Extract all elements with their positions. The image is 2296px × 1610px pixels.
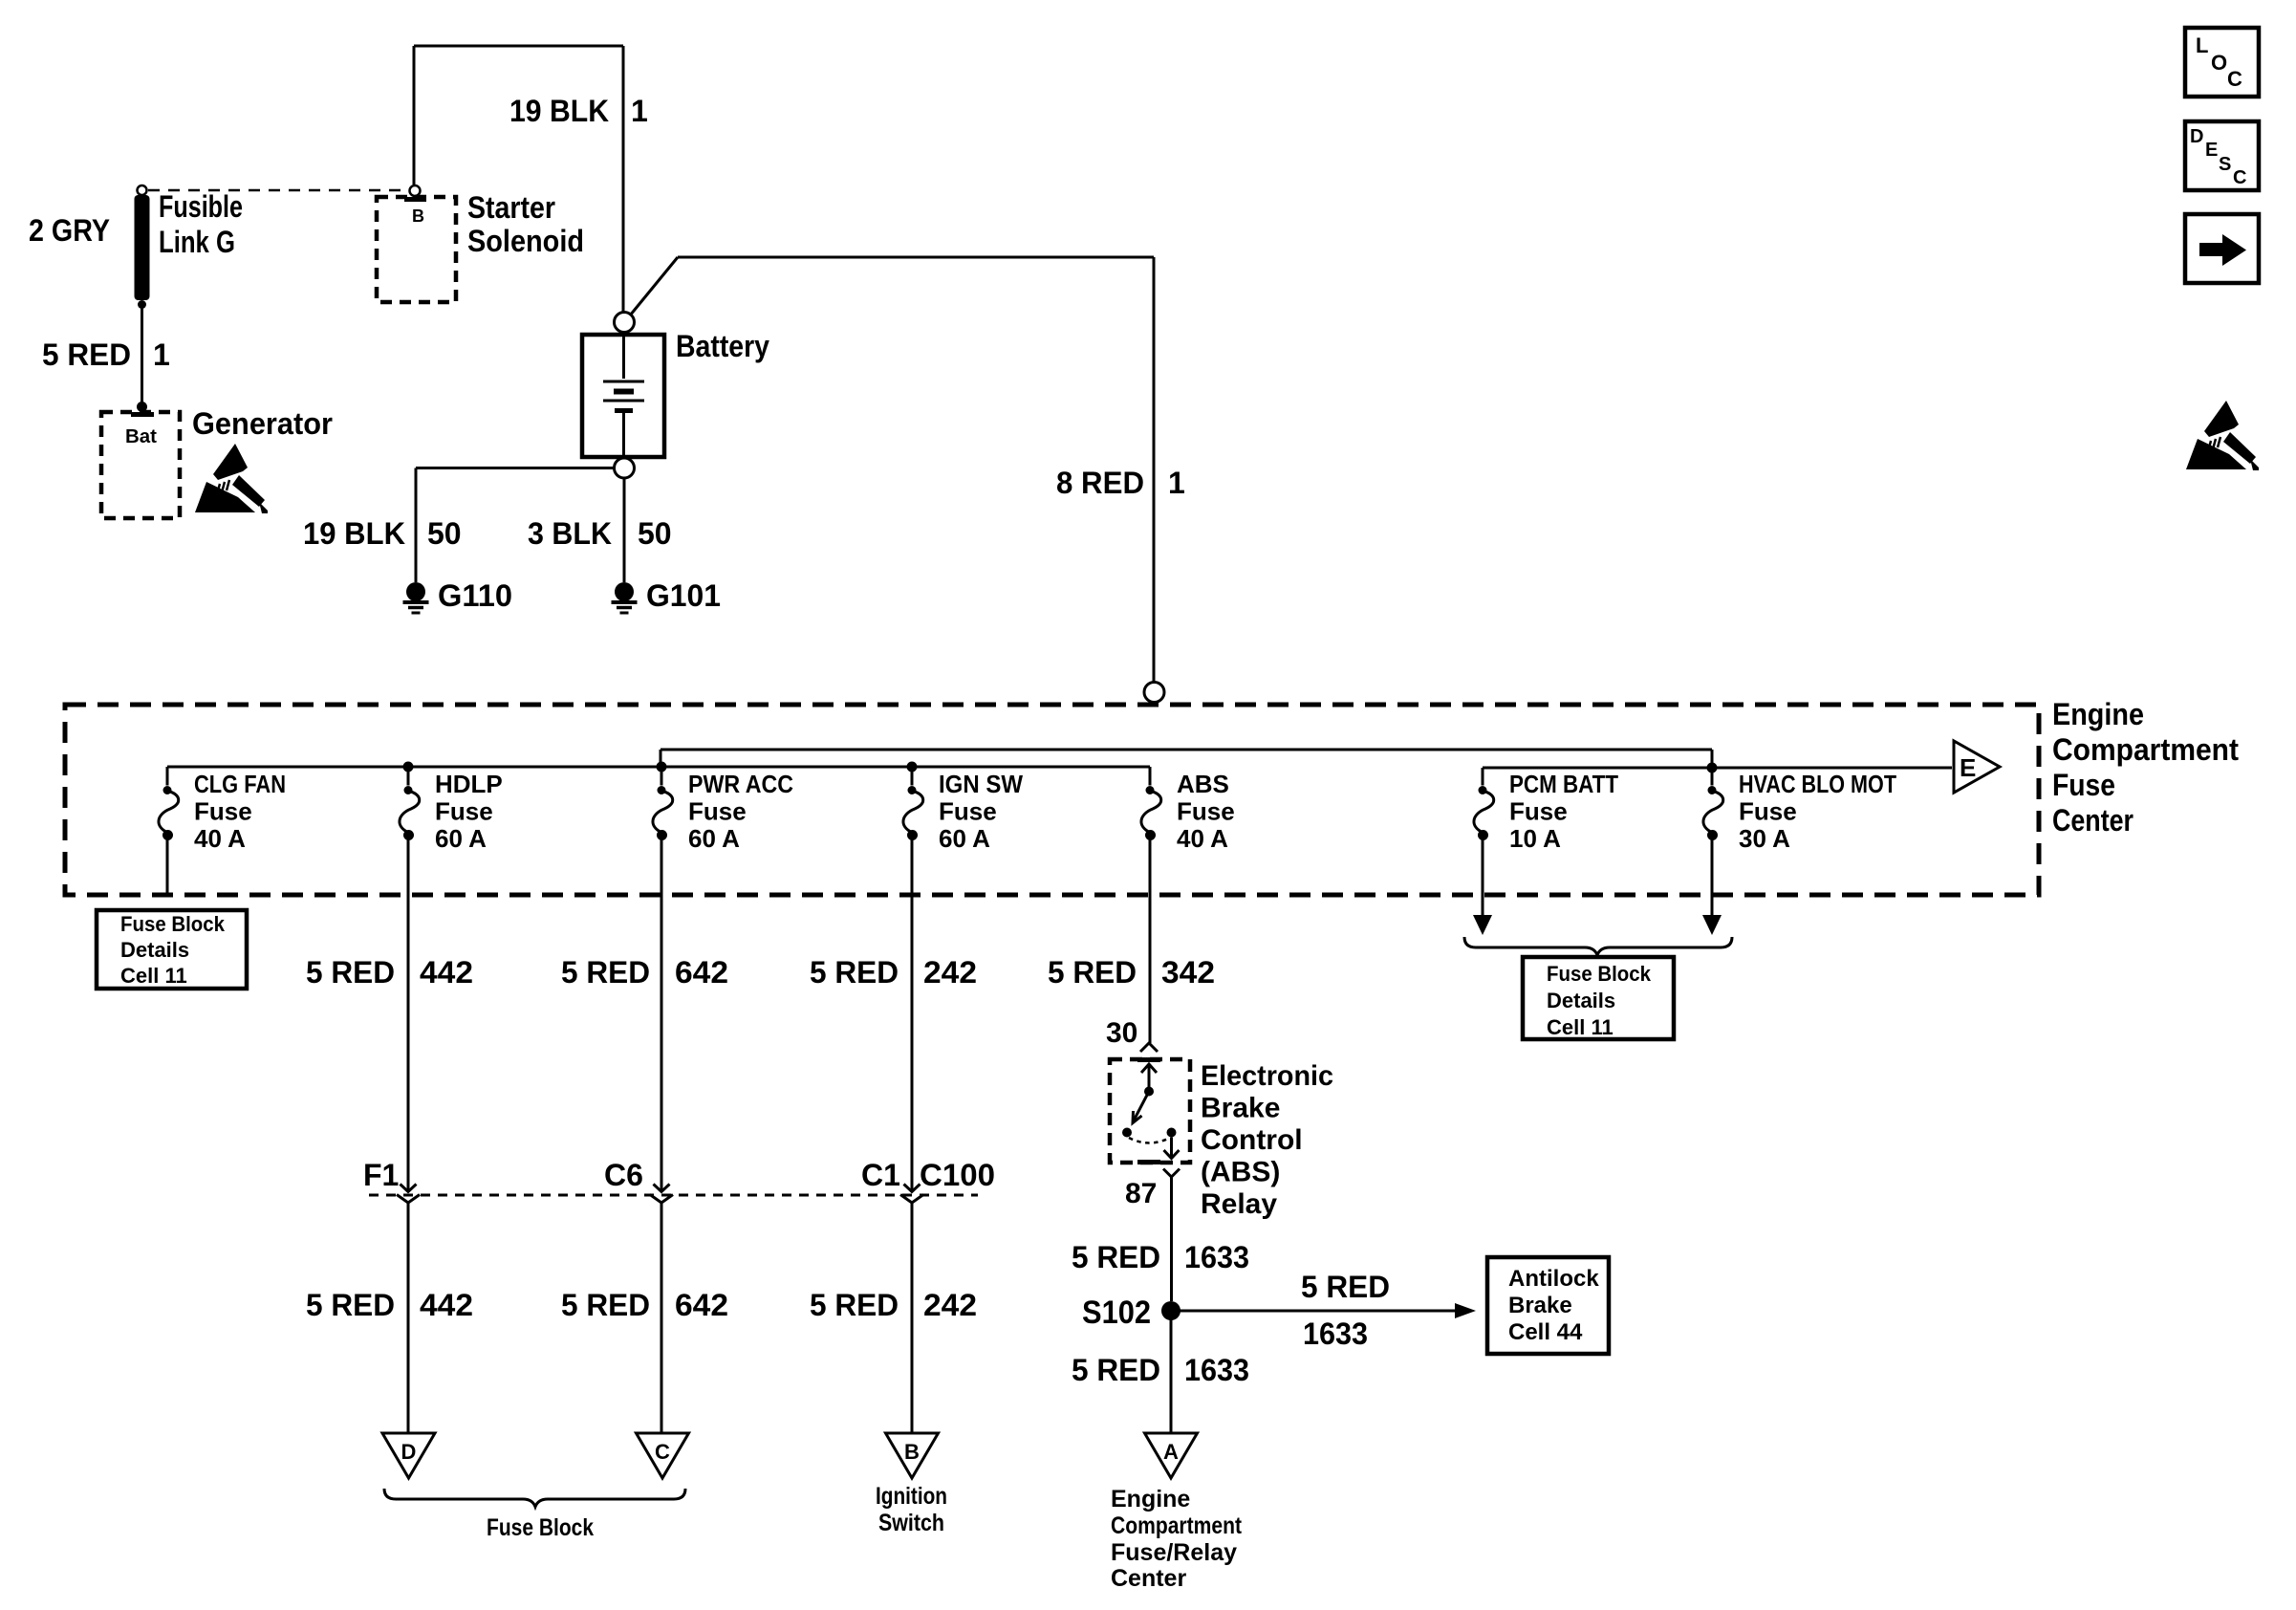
svg-text:S102: S102 [1082,1295,1151,1331]
fuse block details callout box (right) [1523,957,1674,1039]
svg-text:5 RED: 5 RED [306,1288,395,1322]
wire label 5 RED 1 [42,337,170,372]
svg-text:5 RED: 5 RED [810,1288,899,1322]
junction dot HVAC [1707,763,1718,773]
svg-text:1633: 1633 [1184,1240,1249,1274]
svg-text:Fuse: Fuse [1509,797,1568,826]
svg-text:Brake: Brake [1201,1093,1280,1124]
svg-text:Fuse: Fuse [194,797,252,826]
svg-text:5 RED: 5 RED [1301,1270,1390,1304]
svg-text:L: L [2196,33,2208,57]
fuse HVAC BLO MOT 30A [1703,786,1723,840]
relay fixed contact 30 arrow [1141,1064,1157,1097]
wire label 5 RED 642 (row2) [561,1288,728,1322]
svg-text:5 RED: 5 RED [810,955,899,990]
svg-text:Engine: Engine [2052,697,2144,731]
svg-text:C: C [2233,167,2246,188]
svg-text:342: 342 [1161,955,1215,990]
svg-text:C6: C6 [604,1158,643,1192]
pin bar 30 [1137,1057,1160,1062]
node battery positive terminal circle [615,313,635,333]
svg-text:Relay: Relay [1201,1188,1277,1220]
pin bar Bat [131,412,154,417]
svg-text:Center: Center [2052,803,2134,838]
svg-text:Center: Center [1111,1565,1186,1592]
LOC legend box [2185,28,2259,97]
svg-text:Compartment: Compartment [2052,732,2239,767]
ESD sensitivity symbol (right margin) [2186,401,2259,470]
svg-text:Link G: Link G [159,225,235,259]
wire CLG FAN fuse to box edge [166,836,169,893]
svg-text:3 BLK: 3 BLK [528,516,612,551]
svg-text:642: 642 [675,1288,728,1322]
svg-text:1633: 1633 [1184,1353,1249,1387]
svg-text:Details: Details [120,938,189,962]
svg-text:Fuse Block: Fuse Block [1547,962,1652,986]
svg-text:D: D [2190,126,2203,147]
svg-text:1: 1 [631,94,648,128]
svg-text:PWR ACC: PWR ACC [688,770,793,798]
connector chevrons F1 [397,1185,420,1204]
fusible link G element [135,195,150,300]
label Ignition Switch [876,1483,947,1536]
battery box [582,335,664,457]
svg-text:Fuse: Fuse [1177,797,1235,826]
svg-text:Fuse: Fuse [2052,768,2115,802]
svg-text:CLG FAN: CLG FAN [194,770,286,798]
wire 5 RED 1633 to antilock brake [1180,1303,1476,1318]
svg-text:40 A: 40 A [1177,824,1228,853]
wire label 5 RED 1633 (lower) [1072,1353,1249,1387]
svg-text:Cell 11: Cell 11 [1547,1015,1614,1039]
connector chevrons C6 [650,1185,673,1204]
svg-text:E: E [2205,140,2218,161]
svg-text:242: 242 [923,1288,977,1322]
label Electronic Brake Control (ABS) Relay [1201,1060,1333,1220]
wire label 19 BLK 1 [509,94,648,128]
connector triangle D [382,1433,435,1478]
svg-text:B: B [412,207,424,226]
svg-text:Engine: Engine [1111,1486,1190,1512]
svg-text:19 BLK: 19 BLK [509,94,609,128]
wire HDLP output [407,836,410,1191]
svg-text:S: S [2219,154,2231,175]
DESC legend box [2185,121,2259,190]
svg-text:1: 1 [153,337,170,372]
svg-text:D: D [401,1440,417,1464]
node battery negative terminal circle [615,458,635,478]
pin bar B [404,197,426,202]
wire S102 to A connector [1170,1318,1173,1433]
svg-text:ABS: ABS [1177,770,1229,798]
brace under D and C (fuse block) [384,1489,685,1507]
electronic brake control ABS relay (dashed box) [1110,1059,1190,1163]
brace under PCM/HVAC arrows [1464,937,1732,955]
wire label 19 BLK 50 [303,516,462,551]
relay contact 87 [1167,1128,1177,1138]
pin bar 87 [1137,1160,1160,1164]
wire IGN SW output [911,836,914,1191]
svg-text:C1: C1 [861,1158,900,1192]
svg-text:Brake: Brake [1508,1293,1572,1318]
connector chevron pin 30 [1140,1043,1158,1052]
svg-text:60 A: 60 A [435,824,487,853]
svg-text:HVAC BLO MOT: HVAC BLO MOT [1739,770,1896,798]
svg-text:PCM BATT: PCM BATT [1509,770,1618,798]
svg-text:87: 87 [1125,1178,1157,1209]
svg-text:8 RED: 8 RED [1056,466,1144,500]
wire PCM BATT output with arrow [1482,836,1484,916]
wire bus C (right bus to E) [1483,768,1952,786]
wire 5 RED fusible link to generator [141,304,143,403]
svg-text:5 RED: 5 RED [561,955,650,990]
starter solenoid (dashed box) [377,197,456,302]
wire ABS output [1149,836,1152,1043]
connector chevron pin 87 [1163,1169,1180,1178]
wire label 5 RED 442 (row1) [306,955,473,990]
svg-text:5 RED: 5 RED [306,955,395,990]
fuse PWR ACC 60A [653,786,673,840]
svg-text:Solenoid: Solenoid [467,224,584,258]
svg-text:19 BLK: 19 BLK [303,516,405,551]
svg-text:G101: G101 [646,578,721,613]
svg-text:Control: Control [1201,1124,1303,1156]
svg-text:Fuse: Fuse [688,797,747,826]
svg-text:Fuse: Fuse [435,797,493,826]
junction dot PWR ACC [657,762,667,772]
fuse PCM BATT 10A [1474,786,1494,840]
engine compartment fuse center (dashed box) [65,705,2039,895]
connector triangle B [886,1433,939,1478]
svg-text:30 A: 30 A [1739,824,1790,853]
wire label 3 BLK 50 [528,516,672,551]
connector E arrow [1954,741,2000,793]
antilock brake callout box [1487,1257,1609,1354]
ground G110 [403,582,429,613]
svg-text:Details: Details [1547,989,1615,1012]
junction dot below fusible link [138,300,146,309]
wire label 5 RED 342 [1048,955,1215,990]
wire 8 RED battery to fuse center [630,257,1154,682]
wire PWR ACC to fuse block [661,1203,663,1433]
svg-text:Switch: Switch [878,1510,944,1536]
svg-text:242: 242 [923,955,977,990]
relay movable contact arm [1122,1092,1149,1138]
splice S102 [1082,1295,1180,1331]
svg-text:5 RED: 5 RED [1048,955,1137,990]
svg-text:642: 642 [675,955,728,990]
wire label 5 RED 1633 (upper) [1072,1240,1249,1274]
ground G101 [612,582,638,613]
wire bus B (upper bus) [661,750,1712,768]
connector chevrons C1 [900,1185,923,1204]
battery cell symbol [603,337,644,455]
svg-text:Compartment: Compartment [1111,1512,1243,1539]
svg-text:442: 442 [420,955,473,990]
svg-text:Fuse Block: Fuse Block [487,1514,594,1541]
fuse IGN SW 60A [903,786,923,840]
wire 19 BLK to G110 [416,468,615,583]
svg-text:60 A: 60 A [939,824,990,853]
svg-text:Battery: Battery [676,329,769,363]
fuse CLG FAN 40A [159,786,179,840]
fuse HDLP 60A [400,786,420,840]
wire 19 BLK from starter solenoid to battery (top loop) [414,46,623,313]
node B terminal circle at starter solenoid [410,185,421,196]
svg-text:Fuse/Relay: Fuse/Relay [1111,1539,1237,1566]
ESD sensitivity symbol (generator) [195,444,268,513]
svg-text:Electronic: Electronic [1201,1060,1333,1092]
svg-text:442: 442 [420,1288,473,1322]
svg-text:Cell 11: Cell 11 [120,964,187,988]
connector triangle C [637,1433,689,1478]
svg-text:F1: F1 [363,1158,399,1192]
svg-text:50: 50 [427,516,462,551]
generator (dashed box) [101,412,180,518]
svg-text:C100: C100 [920,1158,995,1192]
svg-text:1633: 1633 [1303,1316,1368,1351]
label Fusible Link G [159,189,243,259]
svg-text:5 RED: 5 RED [42,337,131,372]
svg-text:1: 1 [1168,466,1185,500]
wire label 5 RED 242 (row2) [810,1288,977,1322]
svg-text:Antilock: Antilock [1508,1266,1599,1292]
wire HVAC output with arrow [1711,836,1714,916]
junction dot HDLP [403,762,414,772]
svg-text:Fuse: Fuse [1739,797,1797,826]
svg-text:Fuse Block: Fuse Block [120,912,226,936]
junction dot at generator Bat terminal [137,402,147,412]
svg-text:2 GRY: 2 GRY [29,213,110,248]
svg-text:50: 50 [638,516,672,551]
node circle top of fusible link [138,185,147,195]
svg-text:Generator: Generator [192,406,333,441]
svg-text:B: B [904,1440,920,1464]
wire HDLP to fuse block [407,1203,410,1433]
arrow legend box [2185,214,2259,283]
wire dashed link fusible link to solenoid B [148,189,408,192]
svg-text:IGN SW: IGN SW [939,770,1023,798]
svg-text:HDLP: HDLP [435,770,503,798]
wire relay output 5 RED 1633 [1170,1177,1173,1301]
wire 3 BLK to G101 [623,478,626,582]
svg-text:Cell 44: Cell 44 [1508,1319,1583,1345]
relay alternate position dashed arc [1129,1138,1170,1143]
fuse block details callout box (left) [97,910,247,989]
wire label 5 RED 642 (row1) [561,955,728,990]
svg-text:5 RED: 5 RED [1072,1240,1160,1274]
label Engine Compartment Fuse Center [2052,697,2239,838]
label Starter Solenoid [467,190,584,258]
label Engine Compartment Fuse/Relay Center [1111,1486,1243,1592]
wire label 5 RED 242 (row1) [810,955,977,990]
svg-text:40 A: 40 A [194,824,246,853]
svg-text:C: C [2227,67,2242,91]
wire label 8 RED 1 [1056,466,1185,500]
node circle 8 RED entering fuse center [1144,683,1164,703]
svg-text:C: C [655,1440,670,1464]
svg-text:60 A: 60 A [688,824,740,853]
junction dot IGN SW [907,762,918,772]
wire bus A (lower feed bus) [167,767,1150,786]
wire IGN SW to ignition switch [911,1203,914,1433]
svg-text:Fuse: Fuse [939,797,997,826]
svg-text:A: A [1163,1440,1179,1464]
svg-text:Ignition: Ignition [876,1483,947,1510]
fuse ABS 40A [1141,786,1161,840]
svg-text:Bat: Bat [125,426,157,447]
connector triangle A [1145,1433,1198,1478]
relay output arrow to pin 87 [1164,1138,1180,1159]
connector C100 dashed line [369,1194,978,1197]
svg-text:5 RED: 5 RED [561,1288,650,1322]
svg-text:5 RED: 5 RED [1072,1353,1160,1387]
svg-text:30: 30 [1106,1017,1137,1049]
svg-text:(ABS): (ABS) [1201,1157,1280,1188]
wire label 5 RED 442 (row2) [306,1288,473,1322]
wire PWR ACC output [661,836,663,1191]
svg-text:O: O [2211,51,2227,75]
svg-text:G110: G110 [438,578,512,613]
svg-text:E: E [1960,753,1976,782]
svg-text:10 A: 10 A [1509,824,1561,853]
svg-text:Starter: Starter [467,190,555,225]
svg-text:Fusible: Fusible [159,189,243,224]
